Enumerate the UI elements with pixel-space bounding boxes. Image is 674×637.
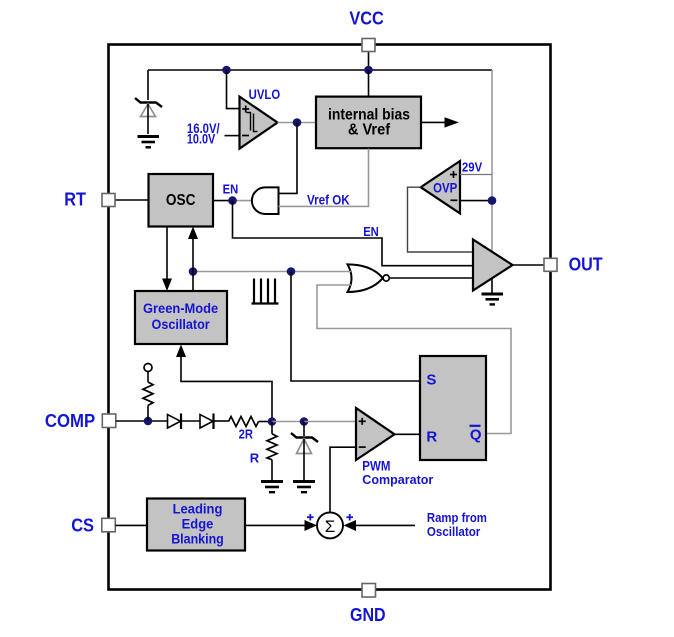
wire: OVP + reference stub [460,174,492,176]
svg-text:OSC: OSC [166,192,196,209]
svg-text:EN: EN [363,225,379,239]
wire: VCC to internal bias [368,70,370,97]
wire: PWM output to latch R [395,433,421,435]
svg-text:R: R [250,451,260,466]
wire: UVLO output [278,122,317,124]
wire: NOR output to driver [389,277,473,279]
wire: OVP - input from VCC rail [460,200,492,202]
driver: output buffer [473,240,513,291]
node: COMP junction [144,417,153,426]
svg-text:Ramp from: Ramp from [427,510,487,525]
svg-text:Green-Mode: Green-Mode [143,301,219,316]
svg-text:Edge: Edge [182,517,214,532]
svg-text:Vref OK: Vref OK [307,192,350,207]
wire: zener D1 branch from rail [147,70,149,100]
pin OUT [513,264,545,266]
svg-text:UVLO: UVLO [249,87,281,102]
svg-text:Leading: Leading [173,502,223,517]
wire: divider to zener node (gray) [272,421,304,423]
resistor R [267,422,277,481]
svg-text:& Vref: & Vref [348,122,391,139]
node: UVLO output junction [293,118,302,127]
svg-text:EN: EN [223,182,239,196]
ground (resistor R) [261,482,283,493]
arrow: Green-Mode Oscillator to OSC [188,227,198,292]
svg-text:VCC: VCC [349,8,384,28]
svg-text:CS: CS [71,516,94,536]
svg-text:29V: 29V [462,160,483,174]
svg-text:Blanking: Blanking [171,532,224,547]
ground (zener D4) [293,482,315,493]
wire: green-mode ctrl to NOR input (gray) [193,271,351,273]
comparator U4 PWM [356,408,395,460]
comparator U2 OVP (faces left) [421,161,460,213]
svg-text:Oscillator: Oscillator [152,317,211,332]
wire: EN to output driver [233,201,474,266]
zener diode D4 (comp clamp) [291,422,318,481]
wire: UVLO ok down to AND gate [279,123,298,194]
wire: burst junction to latch S input [291,272,420,382]
wire: COMP to diodes [116,420,168,422]
wire: latch Qbar feedback to NOR (gray) [317,285,511,434]
pin VCC [368,51,370,70]
svg-text:OUT: OUT [569,255,603,275]
wire: VCC rail to OVP/driver (gray) [491,70,493,252]
wire+arrow: LEB to summer [245,520,317,531]
svg-text:Comparator: Comparator [362,472,433,487]
wire+arrow: feedback into Green-Mode Oscillator [176,345,272,422]
pin COMP [102,414,116,428]
resistor: COMP pull-up [143,372,153,422]
wire: CS to LEB [115,524,147,526]
block: internal bias & Vref [316,97,421,149]
wire+arrow: ramp into summer [344,520,416,531]
node: zener clamp junction [300,417,309,426]
block: Green-Mode Oscillator [135,291,227,344]
gate: AND (enable, faces left) [252,187,279,214]
node: UVLO sense junction on rail [222,66,231,75]
node: EN junction [228,196,237,205]
block: SR latch [420,356,486,460]
node: VCC junction on rail [364,66,373,75]
arrow: OSC to Green-Mode Oscillator [162,227,172,292]
ground (zener D1) [138,137,160,148]
node: burst signal junction [287,267,296,276]
svg-text:COMP: COMP [45,411,95,431]
IC boundary [109,45,551,590]
label: + (CS into summer) [307,514,314,521]
pin GND [362,584,376,598]
comparator U1 UVLO [240,97,278,149]
summer (sigma) [317,512,343,538]
wire: VCC top rail y=70 [148,69,492,71]
zener diode D1 (VCC clamp) [135,98,162,134]
svg-text:GND: GND [350,605,386,625]
diode D3 [200,414,229,430]
wire: PWM - input from summer [330,447,356,512]
resistor 2R [229,417,273,427]
burst pulses symbol [252,279,279,304]
svg-text:Σ: Σ [325,517,336,536]
svg-text:RT: RT [64,190,86,210]
gate: NOR U3 [348,264,390,292]
wire: Vref OK into AND gate (gray) [279,149,369,207]
block: Leading Edge Blanking [147,499,245,551]
svg-text:2R: 2R [239,426,254,441]
node: divider junction [268,417,277,426]
node: green-mode / NOR junction [189,267,198,276]
wire: UVLO + input [227,70,240,109]
wire: Vref output arrow [421,117,459,127]
wire: to PWM comparator + (gray) [304,421,356,423]
block: OSC [149,174,214,227]
svg-text:R: R [426,429,437,446]
svg-text:Oscillator: Oscillator [427,524,480,539]
svg-text:Q: Q [470,427,482,444]
wire: UVLO - reference stub [225,135,240,137]
node: OVP sense junction [488,196,497,205]
svg-text:10.0V: 10.0V [187,131,215,146]
wire: OVP output to driver [408,187,474,252]
svg-text:OVP: OVP [433,180,457,195]
wire: OSC to AND gate output [213,200,233,202]
svg-text:S: S [426,372,436,389]
label: + (ramp into summer) [346,514,353,521]
pin RT [115,199,149,201]
pin CS [102,518,116,532]
ground (output driver) [482,278,504,304]
pull-up terminal (open circle) [144,364,152,372]
diode D2 [168,414,201,430]
